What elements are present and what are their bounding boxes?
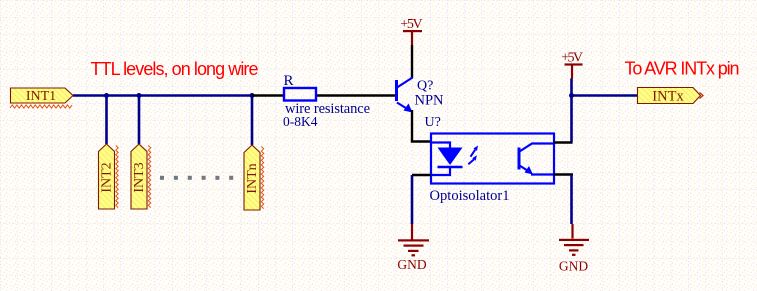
annotation "TTL levels, on long wire" <box>91 59 259 79</box>
ground GND (left) <box>397 224 429 272</box>
transistor Q? (NPN) <box>397 78 413 113</box>
wire +5V down to junction (navy) <box>570 79 573 96</box>
wire stub to INT2 <box>105 96 108 145</box>
port INTn <box>244 145 260 210</box>
junction at output rail <box>569 93 574 98</box>
wire emitter down (black) <box>411 110 413 142</box>
svg-text:Q?: Q? <box>417 79 433 94</box>
power +5V (collector rail) <box>400 17 422 45</box>
svg-text:GND: GND <box>397 257 426 272</box>
svg-text:R: R <box>284 73 294 89</box>
transistor Q? designator <box>417 79 433 94</box>
wire junction down to opto collector pin (navy) <box>570 96 573 143</box>
wire opto emitter pin (black) <box>554 173 574 175</box>
wire resistor to transistor base (black) <box>316 94 396 96</box>
ground GND (right) <box>559 224 589 274</box>
error squiggle right of INT3 <box>148 146 150 208</box>
svg-text:INT3: INT3 <box>132 162 147 192</box>
svg-text:INT1: INT1 <box>26 89 56 104</box>
resistor R value: 0-8K4 <box>283 114 318 129</box>
svg-text:NPN: NPN <box>415 92 445 108</box>
junction at INTn <box>250 93 255 98</box>
port INTx <box>638 88 701 105</box>
svg-text:INT2: INT2 <box>100 162 115 192</box>
resistor R value: wire resistance <box>285 101 370 117</box>
wire opto collector pin (black) <box>554 141 573 143</box>
svg-text:INTx: INTx <box>652 89 684 105</box>
svg-text:+5V: +5V <box>400 17 422 32</box>
wire main bus (navy, INT1 to junction) <box>73 94 252 97</box>
svg-text:0-8K4: 0-8K4 <box>283 114 318 129</box>
annotation "To AVR INTx pin" <box>625 59 740 79</box>
error squiggle under INT1 <box>10 105 72 108</box>
dotted continuation line <box>160 176 233 180</box>
wire junction to resistor (black) <box>252 94 284 96</box>
no-connect chevron at INTx tip <box>700 93 704 99</box>
svg-text:+5V: +5V <box>561 51 583 66</box>
wire opto cathode pin to GND drop (black) <box>412 174 431 176</box>
optoisolator value label Optoisolator1 <box>430 188 510 204</box>
wire stub to INT3 <box>138 96 141 145</box>
error squiggle right of INTn <box>261 147 263 209</box>
junction at INT2 <box>104 93 109 98</box>
resistor R <box>284 88 316 101</box>
wire GND drop right (navy) <box>570 175 573 225</box>
optoisolator U? <box>431 134 554 184</box>
svg-text:Optoisolator1: Optoisolator1 <box>430 188 510 204</box>
optoisolator U? designator <box>425 115 441 130</box>
wire stub to INTn <box>251 96 254 146</box>
error squiggle right of INT2 <box>116 146 118 208</box>
port INT1 <box>11 88 74 104</box>
wire GND drop left (navy) <box>411 175 414 224</box>
wire emitter to opto anode pin (black) <box>411 140 431 142</box>
svg-text:To AVR INTx pin: To AVR INTx pin <box>625 59 740 79</box>
svg-text:INTn: INTn <box>245 163 260 193</box>
svg-text:TTL levels, on long wire: TTL levels, on long wire <box>91 59 259 79</box>
power +5V (output rail) <box>561 51 583 79</box>
port INT3 <box>131 144 147 209</box>
wire junction to INTx port (navy) <box>572 94 638 97</box>
svg-text:U?: U? <box>425 115 441 130</box>
svg-text:GND: GND <box>559 259 588 274</box>
wire +5V to collector (black) <box>411 45 413 78</box>
resistor R designator <box>284 73 294 89</box>
port INT2 <box>99 144 115 209</box>
junction at INT3 <box>137 93 142 98</box>
transistor type label NPN <box>415 92 445 108</box>
